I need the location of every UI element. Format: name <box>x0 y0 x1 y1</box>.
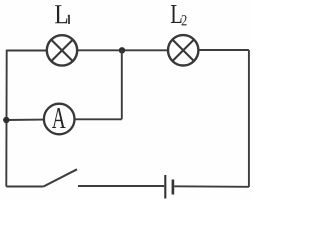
wire: top-left from corner to lamp L1 <box>7 50 47 52</box>
wire: ammeter branch horizontal left of A <box>6 119 44 121</box>
ammeter U1 (circle) <box>44 104 75 135</box>
wire: right edge vertical <box>248 50 250 187</box>
node: junction dot top (between L1 and L2) <box>119 47 125 53</box>
node: junction dot left edge <box>3 117 9 123</box>
wire: switch right contact to battery <box>78 185 164 187</box>
label L1: subscript 1 <box>68 15 69 24</box>
wire: ammeter branch horizontal right of A <box>76 118 122 120</box>
label L2: letter L <box>171 5 182 23</box>
wire: bottom-right from corner to battery <box>174 185 249 188</box>
switch S (open blade) <box>44 169 78 186</box>
label L1: letter L <box>55 5 67 23</box>
wire: top from L2 to top-right corner <box>198 49 249 51</box>
lamp L2 (circle with X) <box>168 35 198 65</box>
lamp L1 (circle with X) <box>47 35 77 65</box>
wire: bottom-left from corner to switch <box>6 186 43 188</box>
wire: top between L1 and L2 <box>77 49 168 51</box>
ammeter U1: letter A <box>52 108 66 128</box>
wire: ammeter branch vertical riser <box>121 50 123 119</box>
wire: left edge vertical <box>5 50 7 187</box>
label L2: subscript 2 <box>182 15 187 25</box>
battery cell: long positive plate <box>164 175 166 199</box>
battery cell: short negative plate <box>172 180 175 195</box>
